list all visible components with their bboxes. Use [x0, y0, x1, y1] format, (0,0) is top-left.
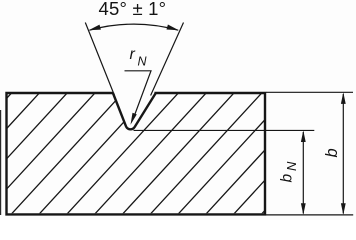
bottom extension line for b and bN dimensions [266, 214, 353, 216]
scan artifact line at left image edge [0, 110, 2, 215]
leader line for rN with arrowhead to notch root [125, 71, 152, 115]
label b (rotated) [323, 148, 341, 157]
svg-text:r: r [130, 46, 136, 63]
hatching (section lines) clipped to specimen body [0, 90, 356, 216]
svg-text:45° ± 1°: 45° ± 1° [99, 0, 167, 19]
V-notch profile (thick) with root radius [113, 93, 156, 129]
extension line at notch root level [134, 129, 315, 131]
notch cut-out (white V area) [113, 91, 157, 129]
label bN (rotated) [279, 161, 300, 183]
dimension line bN (vertical, arrows both ends) [302, 132, 304, 214]
top extension line for b dimension [266, 91, 353, 93]
dimension line b (vertical, arrows both ends) [342, 94, 344, 214]
right notch flank extension line (thin) [151, 23, 184, 96]
angle arc left arrowhead [89, 25, 101, 31]
left notch flank extension line (thin) [85, 23, 114, 96]
svg-text:b: b [323, 148, 341, 157]
svg-text:b: b [279, 174, 296, 183]
svg-text:N: N [138, 55, 148, 69]
angle arc right arrowhead [167, 25, 179, 31]
specimen outline (thick) [7, 93, 266, 214]
angle dimension arc [90, 24, 179, 30]
svg-text:N: N [284, 161, 299, 171]
